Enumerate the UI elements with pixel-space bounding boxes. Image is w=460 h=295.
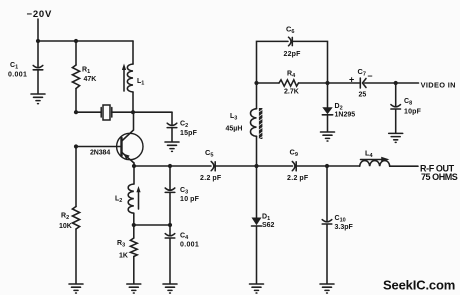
node C10 junction <box>325 164 329 168</box>
ground C10 <box>320 284 334 293</box>
capacitor C2 <box>167 123 177 127</box>
capacitor C9 (series) <box>292 162 296 171</box>
node R1 top junction <box>74 39 78 43</box>
wire C1 top lead <box>37 41 39 67</box>
svg-text:10 pF: 10 pF <box>180 196 200 203</box>
svg-text:2.7K: 2.7K <box>284 89 299 96</box>
wire D1 bottom lead <box>256 226 258 284</box>
wire collector lead <box>122 112 133 140</box>
wire base lead <box>76 146 122 148</box>
wire C10 top lead <box>326 166 328 221</box>
ground C1 <box>31 94 45 104</box>
node crystal-line / R column junction <box>74 110 78 114</box>
node base junction <box>74 144 78 148</box>
capacitor C8 <box>391 105 401 109</box>
ground C8 <box>389 133 403 142</box>
node L2 bottom junction <box>132 223 136 227</box>
svg-text:L1: L1 <box>137 78 144 87</box>
svg-text:10K: 10K <box>59 223 72 230</box>
wire R1 bottom lead <box>75 89 77 113</box>
svg-text:15pF: 15pF <box>180 130 198 137</box>
wire C7 left lead <box>328 82 361 84</box>
wire L3 bottom lead <box>256 136 258 166</box>
wire L3 top lead <box>256 83 258 109</box>
wire D1 top lead <box>256 166 258 218</box>
node L3/D1 junction <box>254 164 258 168</box>
svg-text:S62: S62 <box>262 222 275 229</box>
svg-text:2N384: 2N384 <box>90 150 110 157</box>
node C8 junction <box>394 81 398 85</box>
wire crystal line left <box>76 111 101 113</box>
wire C4 top lead <box>169 225 171 235</box>
wire emitter lead <box>133 163 135 166</box>
svg-text:L4: L4 <box>365 149 374 160</box>
wire D2 bottom lead <box>327 115 329 132</box>
svg-text:75 OHMS: 75 OHMS <box>421 172 458 182</box>
wire main line segment 1 <box>134 165 211 167</box>
wire L1 bottom lead <box>132 92 134 112</box>
svg-text:10pF: 10pF <box>404 109 422 116</box>
wire R2 bottom lead <box>75 229 77 284</box>
wire C2 top lead <box>171 112 173 124</box>
svg-text:C7: C7 <box>358 67 366 78</box>
wire crystal line right <box>112 111 172 113</box>
wire C6 loop top <box>257 41 289 83</box>
wire main line segment 3 <box>297 165 360 167</box>
resistor R2 <box>72 207 79 230</box>
inductor L4 <box>360 157 390 167</box>
capacitor C1 <box>33 65 43 69</box>
ground C2 <box>165 142 179 151</box>
svg-text:R3: R3 <box>117 240 125 249</box>
wire C2 bottom lead <box>171 128 173 142</box>
resistor R3 <box>130 238 137 257</box>
capacitor C6 (series) <box>289 37 293 46</box>
wire top supply rail <box>38 40 133 42</box>
node R4 left junction <box>254 81 258 85</box>
svg-text:3.3pF: 3.3pF <box>335 224 354 231</box>
node emitter/main-line junction <box>132 164 136 168</box>
wire C3 top lead <box>169 166 171 189</box>
svg-text:47K: 47K <box>84 76 97 83</box>
wire R1 top lead <box>75 41 77 65</box>
svg-text:0.001: 0.001 <box>180 242 199 249</box>
svg-text:C1: C1 <box>10 62 18 71</box>
resistor R4 <box>279 80 299 86</box>
wire C3 bottom lead <box>169 193 171 225</box>
ground R2 <box>69 284 83 293</box>
svg-text:C8: C8 <box>404 98 412 107</box>
node R4 right / D2 junction <box>325 81 329 85</box>
svg-text:C5: C5 <box>205 148 213 159</box>
wire C1 bottom lead <box>37 70 39 93</box>
svg-text:C10: C10 <box>335 215 346 224</box>
svg-text:C4: C4 <box>180 233 189 242</box>
inductor L2 <box>128 184 140 213</box>
svg-text:R2: R2 <box>61 213 69 222</box>
node supply/C1 junction <box>36 39 40 43</box>
node collector/L1/C2 junction <box>131 110 135 114</box>
node C3 top junction <box>168 164 172 168</box>
svg-text:22pF: 22pF <box>284 51 302 58</box>
wire L2 bottom lead <box>133 213 135 225</box>
svg-text:C9: C9 <box>290 148 298 159</box>
svg-text:0.001: 0.001 <box>8 72 27 79</box>
ground D2 <box>321 132 335 141</box>
svg-text:D1: D1 <box>262 214 270 223</box>
svg-text:L2: L2 <box>115 196 122 205</box>
svg-text:2.2 pF: 2.2 pF <box>287 175 309 182</box>
transistor Q1 2N384 <box>117 133 143 163</box>
ground C4 <box>163 284 177 293</box>
svg-text:25: 25 <box>359 92 367 99</box>
wire R3 top lead <box>133 225 135 238</box>
wire C6 loop right <box>293 41 328 83</box>
crystal Y1 <box>101 105 112 120</box>
ground D1 <box>250 284 264 293</box>
wire C8 top lead <box>395 83 397 106</box>
wire -20V lead <box>37 19 39 41</box>
diode D2 1N295 <box>322 107 332 115</box>
wire C7 right lead to C8 node <box>365 82 396 84</box>
inductor L3 45uH <box>251 108 263 139</box>
svg-text:1N295: 1N295 <box>335 112 356 119</box>
svg-text:R4: R4 <box>287 71 296 80</box>
svg-text:+: + <box>349 75 354 85</box>
wire R4 right lead <box>299 82 328 84</box>
capacitor C5 (series) <box>211 162 215 171</box>
wire D2 top lead <box>327 83 329 107</box>
wire L2 top lead <box>133 166 135 184</box>
svg-text:R1: R1 <box>82 67 90 76</box>
wire L2-to-C4 link <box>134 224 170 226</box>
svg-text:VIDEO IN: VIDEO IN <box>421 80 456 89</box>
wire main line segment 2 <box>216 165 293 167</box>
wire C4 bottom lead <box>169 238 171 283</box>
capacitor C7 (electrolytic) <box>360 78 366 88</box>
diode D1 S62 <box>252 218 262 227</box>
capacitor C3 <box>165 188 175 192</box>
capacitor C4 <box>165 234 175 238</box>
capacitor C10 <box>322 220 332 224</box>
wire R2 top lead <box>75 147 77 207</box>
wire RF out stub <box>390 165 418 167</box>
node C4 top junction <box>168 223 172 227</box>
wire R3 bottom lead <box>133 257 135 284</box>
inductor L1 <box>122 64 133 93</box>
svg-text:C3: C3 <box>180 187 188 196</box>
svg-text:45µH: 45µH <box>226 126 243 133</box>
wire video-in stub <box>396 82 419 84</box>
svg-text:–: – <box>368 71 373 81</box>
wire R4 left lead <box>257 82 280 84</box>
wire L1 top lead <box>132 41 134 64</box>
resistor R1 <box>72 65 79 89</box>
svg-text:SeekIC.com: SeekIC.com <box>383 278 455 293</box>
svg-text:−20V: −20V <box>27 9 53 20</box>
svg-text:C6: C6 <box>286 25 294 36</box>
svg-text:1K: 1K <box>119 253 128 260</box>
wire C10 bottom lead <box>326 224 328 283</box>
ground R3 <box>127 284 141 293</box>
wire C8 bottom lead <box>395 109 397 133</box>
svg-text:L3: L3 <box>230 113 237 122</box>
svg-text:2.2 pF: 2.2 pF <box>200 175 222 182</box>
svg-text:C2: C2 <box>180 121 188 130</box>
svg-text:D2: D2 <box>335 103 343 112</box>
